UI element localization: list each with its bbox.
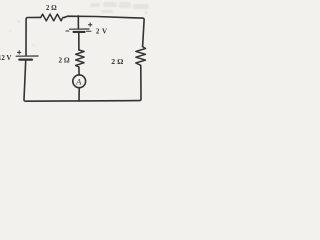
faint bleed-through smudges top-right bbox=[90, 2, 149, 13]
wire: resistor R2 to ammeter bbox=[78, 67, 80, 75]
minus dash right of B2 bbox=[87, 30, 92, 32]
wire: top right segment + top-right corner + right upper segment bbox=[65, 16, 145, 46]
wire: ammeter to bottom wire bbox=[78, 88, 80, 101]
svg-text:A: A bbox=[75, 78, 82, 87]
battery B2 2V short plate (-) bbox=[74, 31, 85, 33]
plus sign of B1 bbox=[17, 51, 21, 55]
svg-text:2 Ω: 2 Ω bbox=[59, 57, 70, 65]
wire: right lower + bottom wire + bottom-left corner + left lower bbox=[24, 61, 141, 101]
svg-text:12 V: 12 V bbox=[0, 54, 11, 62]
faint paper specks bbox=[9, 12, 147, 45]
svg-text:2 Ω: 2 Ω bbox=[46, 4, 57, 12]
wire: top-left corner + left upper segment bbox=[26, 17, 41, 55]
battery B1 12V short plate (-) bbox=[19, 58, 32, 60]
battery B1 12V long plate (+) bbox=[16, 55, 38, 57]
ammeter A1 circle bbox=[73, 75, 86, 88]
plus sign of B2 bbox=[88, 23, 92, 27]
background paper bbox=[0, 0, 150, 109]
resistor R3 2ohm (right, vertical zigzag) bbox=[136, 47, 146, 66]
wire: junction node to battery B2 bbox=[77, 16, 79, 29]
wire: battery B2 to resistor R2 bbox=[78, 33, 80, 50]
minus dash left of B2 bbox=[66, 30, 69, 32]
svg-text:2 Ω: 2 Ω bbox=[111, 57, 123, 66]
svg-text:2 V: 2 V bbox=[96, 27, 108, 35]
battery B2 2V long plate (+) bbox=[70, 28, 89, 30]
resistor R1 2ohm (top, horizontal zigzag) bbox=[41, 14, 65, 21]
resistor R2 2ohm (middle, vertical zigzag) bbox=[76, 50, 85, 67]
